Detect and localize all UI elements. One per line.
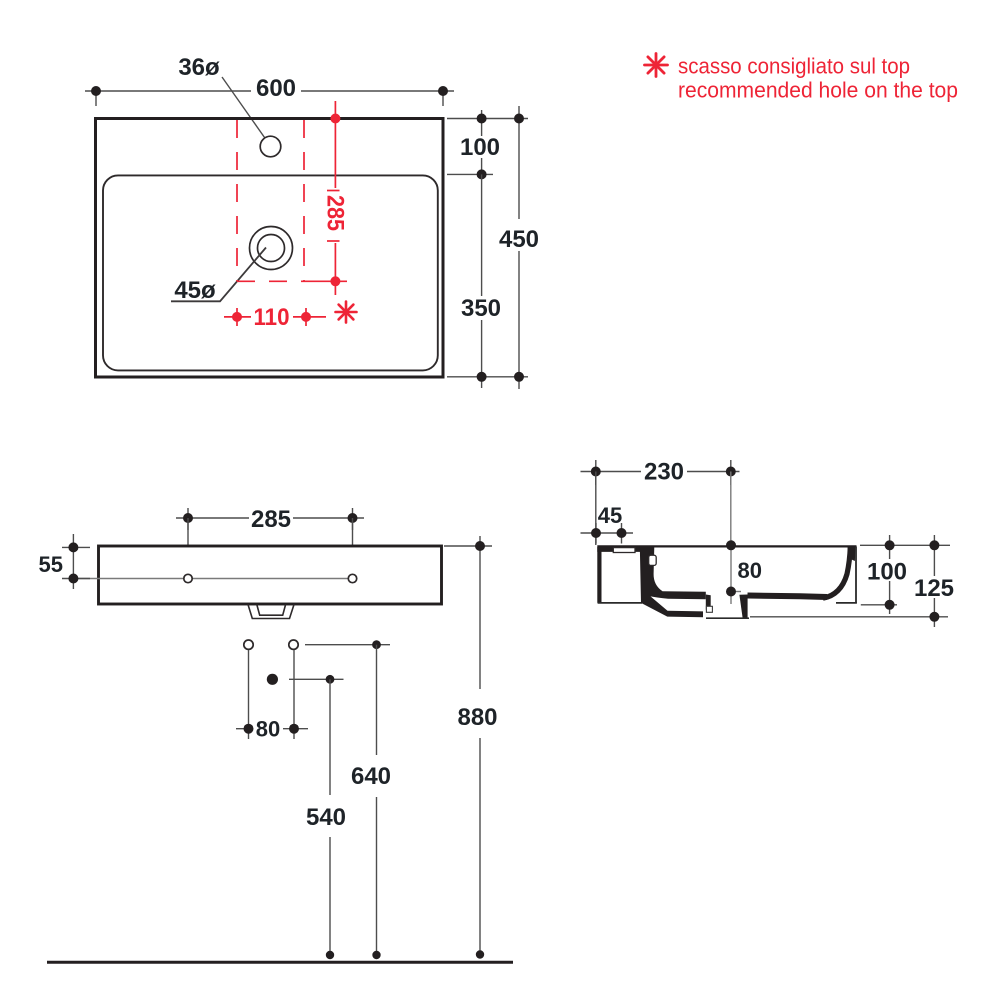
dot on 540 dim top: [326, 675, 335, 684]
extension slab bottom (side): [861, 604, 897, 606]
faucet hole 36ø: [260, 136, 281, 157]
svg-text:100: 100: [460, 134, 500, 161]
overflow notch on wall bar: [649, 555, 657, 565]
dimension 640 vertical: [372, 645, 380, 960]
svg-text:450: 450: [499, 226, 539, 253]
svg-text:230: 230: [644, 459, 684, 486]
dimension 100 (side): [885, 535, 895, 614]
svg-text:45: 45: [598, 503, 622, 528]
line from right hole to 640 dim: [305, 644, 390, 646]
extension top right (side): [860, 544, 950, 546]
leader for 45ø: [171, 248, 266, 302]
svg-text:45ø: 45ø: [174, 277, 216, 304]
extension line bottom right: [447, 376, 528, 378]
extension verticals to 80 dim: [248, 650, 250, 739]
dimension 880 vertical: [475, 536, 485, 959]
svg-text:125: 125: [914, 575, 954, 602]
wall hole right (open circle): [289, 640, 298, 649]
mounting hole right (front): [348, 574, 356, 582]
dimension 55: [62, 534, 90, 589]
leader for 36ø hole: [222, 77, 267, 141]
svg-text:scasso consigliato sul top: scasso consigliato sul top: [678, 54, 910, 79]
dimension 100 (vertical): [477, 110, 487, 179]
extension 230 left down to slab: [595, 472, 597, 546]
svg-text:350: 350: [461, 295, 501, 322]
red dimension 285 vertical line: [327, 101, 340, 295]
red dashed cutout rectangle: [237, 120, 304, 281]
svg-text:640: 640: [351, 763, 391, 790]
inner wall bar with bowl bottom and outlet channel (filled): [640, 546, 706, 617]
red solid segment at cutout bottom: [304, 280, 347, 282]
gray line through mounting holes: [74, 578, 348, 580]
svg-text:100: 100: [867, 559, 907, 586]
bowl bottom right of drain: [748, 596, 828, 598]
bottom-right edge (side): [836, 602, 857, 604]
wall hole left (open circle): [244, 640, 253, 649]
dimension 450 (vertical): [514, 106, 524, 389]
right edge (side): [855, 547, 857, 604]
dot on 640 dim top: [372, 640, 381, 649]
line from supply dot to 540 dim: [289, 678, 344, 680]
drain fitting under slab (outer): [248, 605, 294, 619]
extension line slab top to 880: [444, 545, 492, 547]
mounting notch slot (side, top): [613, 548, 635, 553]
svg-text:285: 285: [251, 506, 291, 533]
drain box left wall: [706, 595, 711, 612]
red asterisk marker large: [645, 54, 668, 77]
svg-text:880: 880: [457, 704, 497, 731]
mounting hole left (front): [184, 574, 192, 582]
ground line: [47, 961, 513, 964]
filled supply dot: [267, 674, 278, 685]
svg-text:80: 80: [256, 717, 280, 742]
drain box white step: [706, 606, 712, 612]
rim top thin line (side): [597, 545, 856, 547]
svg-text:36ø: 36ø: [178, 54, 220, 81]
basin inner bowl rounded rectangle: [103, 175, 438, 370]
red asterisk marker small: [336, 302, 357, 323]
svg-text:110: 110: [254, 304, 290, 331]
bottom-left edge (side): [598, 602, 642, 604]
drain fitting under slab (inner): [257, 605, 286, 616]
extension line at bowl top level: [447, 173, 493, 175]
drain hole 45ø outer: [250, 227, 293, 270]
extension line top right: [447, 118, 528, 120]
dimension 230 line: [581, 460, 740, 485]
svg-text:285: 285: [322, 195, 349, 231]
drain hole 45ø inner: [258, 235, 285, 262]
extension lines from 285 to holes: [187, 518, 189, 573]
svg-text:540: 540: [306, 804, 346, 831]
basin outer rectangle: [96, 119, 444, 378]
extension drain bottom (side): [750, 616, 948, 618]
dimension 80 (side) vertical: [726, 540, 741, 604]
svg-text:recommended hole on the top: recommended hole on the top: [678, 78, 958, 103]
right ramp curve: [823, 547, 850, 598]
deck top thick edge (side, left section): [597, 548, 652, 552]
dimension 350 (vertical): [477, 174, 487, 388]
drain box bottom edge: [706, 617, 749, 619]
left edge thick (side): [597, 547, 601, 603]
dimension 285 line (front): [176, 508, 364, 530]
dimension 540 vertical: [326, 679, 334, 959]
dimension 125 (side): [929, 535, 939, 627]
svg-text:55: 55: [39, 552, 63, 577]
extension 230 right down to drain: [730, 472, 732, 541]
dimension 600 line: [85, 86, 454, 106]
slab rectangle (front): [99, 546, 442, 604]
red dimension 110: [224, 308, 326, 326]
dimension 80 (front): [236, 724, 308, 734]
dimension 45: [581, 523, 634, 544]
svg-text:80: 80: [738, 558, 762, 583]
drain box right wall: [739, 595, 747, 618]
svg-text:600: 600: [256, 75, 296, 102]
